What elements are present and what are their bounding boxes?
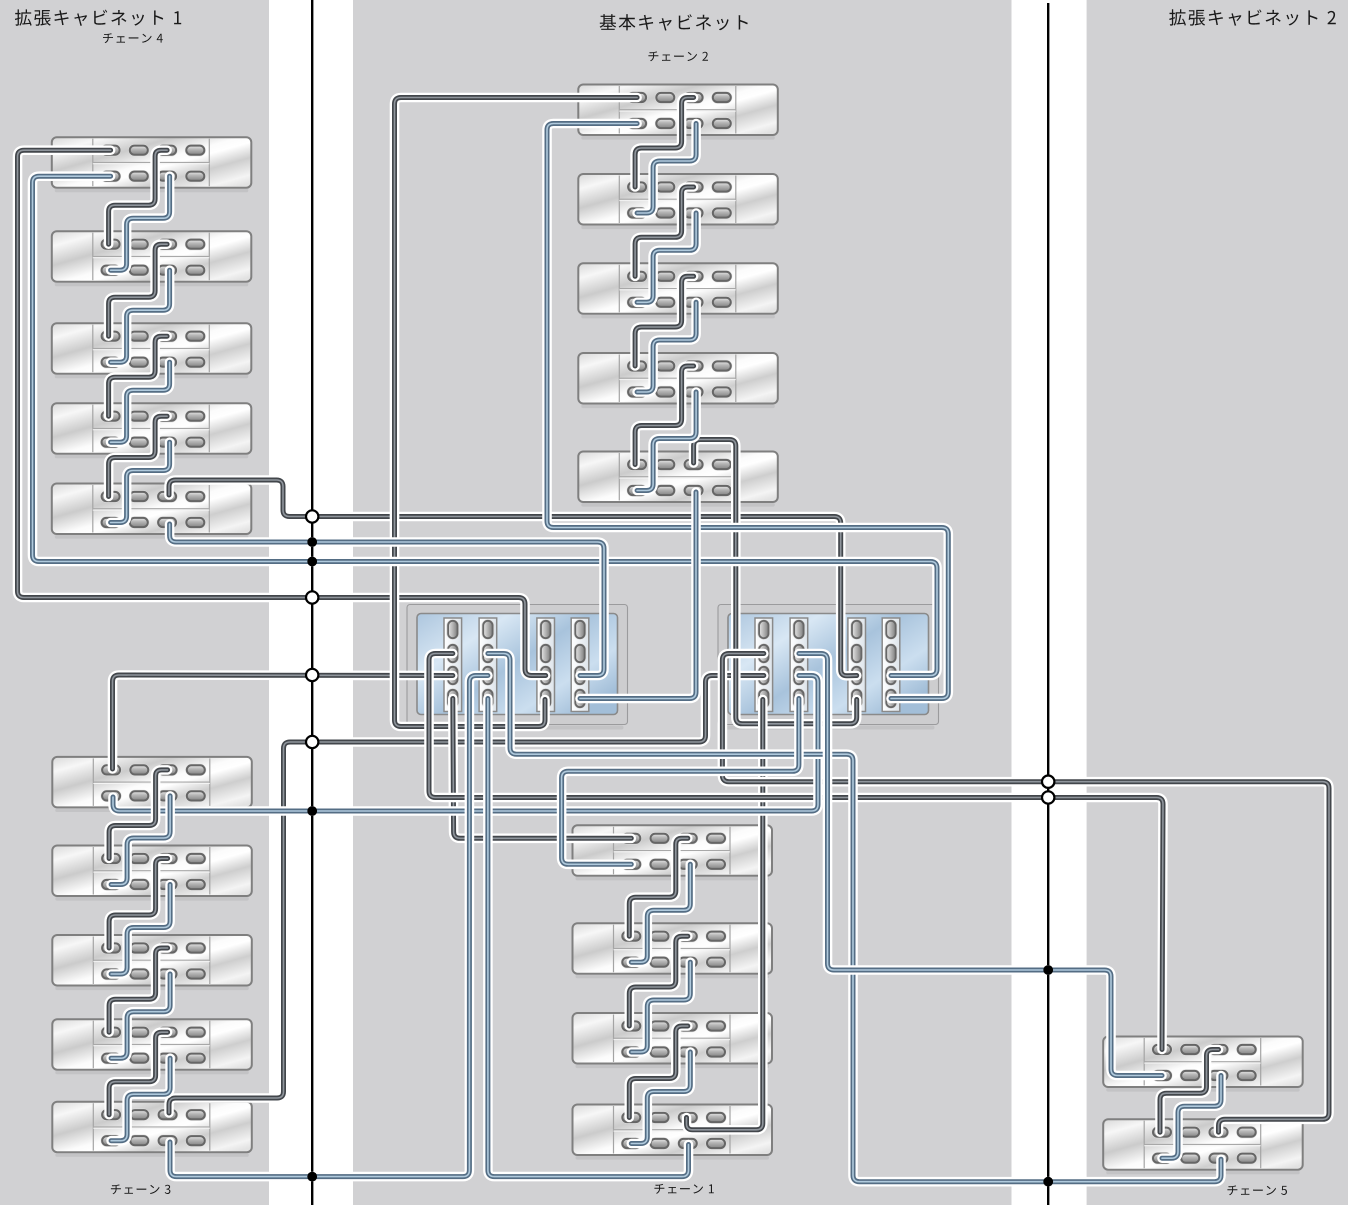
cable dark: L10 r1p3 to C2 s1p3 <box>169 676 764 1114</box>
cable dark: L6 r1p1 to C1 s1p3 <box>113 675 453 769</box>
disk shelf L4 (chain 4) <box>52 403 252 458</box>
cable blue: M7 r2p3 to M8 r2p1 <box>631 962 690 1052</box>
label: expansion cabinet 1 <box>15 9 181 26</box>
cable dark: L5 r1p3 to C2 s3p3 <box>169 480 857 676</box>
junction: filled dot at boundary y=542 <box>307 537 317 547</box>
disk shelf L3 (chain 4) <box>52 323 252 378</box>
cable dark: R1 r1p3 to R2 r1p1 <box>1160 1050 1219 1133</box>
junction: open circle at boundary y=675 <box>306 669 318 681</box>
disk shelf M8 (chain 1) <box>573 1013 773 1068</box>
cable blue: L1 r2p3 to L2 r2p1 <box>111 176 170 270</box>
cable dark: L7 r1p3 to L8 r1p1 <box>109 859 168 949</box>
disk shelf M3 (chain 2) <box>578 263 778 318</box>
cable dark: M2 r1p3 to M3 r1p1 <box>635 187 694 276</box>
cable blue: L7 r2p3 to L8 r2p1 <box>111 885 170 975</box>
label: base cabinet <box>600 14 748 31</box>
disk shelf M6 (chain 1) <box>573 825 773 880</box>
controller U1 (left head) <box>407 605 628 730</box>
cable dark: M8 r1p3 to M9 r1p1 <box>629 1026 688 1118</box>
cable blue: M8 r2p3 to M9 r2p1 <box>631 1052 690 1144</box>
label: expansion cabinet 2 <box>1169 9 1336 26</box>
cable dark: C2 s1p2 to R2 r1p3 <box>722 654 1329 1133</box>
cable blue: C1 s2p4 to M9 r2p3 <box>488 699 689 1177</box>
cable blue: L4 r2p3 to L5 r2p1 <box>111 442 170 522</box>
disk shelf M4 (chain 2) <box>578 353 778 408</box>
label: chain 3 <box>111 1184 170 1194</box>
disk shelf L5 (chain 4) <box>52 484 252 539</box>
cable blue: L1 r2p1 to C2 s4p3 <box>33 176 938 675</box>
cable dark: M4 r1p3 to M5 r1p1 <box>635 366 694 465</box>
junction: open circle at boundary y=742 <box>306 736 318 748</box>
disk shelf M5 (chain 2) <box>578 452 778 507</box>
disk shelf M2 (chain 2) <box>578 174 778 229</box>
cable dark: L6 r1p3 to L7 r1p1 <box>109 770 168 859</box>
disk shelf L9 (chain 3) <box>52 1019 252 1074</box>
junction: open circle at boundary y=516 <box>306 510 318 522</box>
junction: filled dot at boundary y=562 <box>307 557 317 567</box>
cable dark: L3 r1p3 to L4 r1p1 <box>109 336 168 416</box>
disk shelf M1 (chain 2) <box>578 85 778 140</box>
cable blue: L9 r2p3 to L10 r2p1 <box>111 1058 170 1141</box>
cable dark: M1 r1p1 to C1 s3p4 <box>395 98 638 727</box>
junction: open circle at boundary y=798 <box>1042 791 1054 803</box>
junction: filled dot at boundary y=1177 <box>307 1172 317 1182</box>
cable dark: L4 r1p3 to L5 r1p1 <box>109 416 168 496</box>
disk shelf L6 (chain 3) <box>52 757 252 812</box>
label: chain 5 <box>1227 1185 1287 1195</box>
cabinet boundary line (right) <box>1047 3 1049 1205</box>
cabinet panel: base cabinet (middle) <box>353 0 1012 1205</box>
cable dark: L9 r1p3 to L10 r1p1 <box>109 1032 168 1115</box>
cable dark: L1 r1p1 to C1 s3p3 <box>18 150 546 675</box>
cable blue: M2 r2p3 to M3 r2p1 <box>637 213 696 302</box>
cable blue: M4 r2p3 to M5 r2p1 <box>637 392 696 491</box>
disk shelf L1 (chain 4) <box>52 137 252 192</box>
cable blue: C1 s2p2 to R2 r2p3 <box>488 654 1221 1182</box>
disk shelf L8 (chain 3) <box>52 935 252 990</box>
junction: filled dot at boundary y=811 <box>307 806 317 816</box>
label: chain 1 <box>654 1184 713 1194</box>
cable dark: M7 r1p3 to M8 r1p1 <box>629 936 688 1026</box>
cabinet panel: expansion cabinet 1 (left) <box>0 0 269 1205</box>
cable dark: C1 s1p2 to R1 r1p1 <box>429 654 1163 1050</box>
cable blue: C2 s2p2 to R1 r2p1 <box>799 654 1162 1076</box>
cable dark: C1 s1p4 to M6 r1p1 <box>453 699 632 839</box>
cable blue: L3 r2p3 to L4 r2p1 <box>111 362 170 442</box>
disk shelf M7 (chain 1) <box>573 923 773 978</box>
cable blue: L8 r2p3 to L9 r2p1 <box>111 974 170 1058</box>
cable blue: M5 r2p3 to C1 s4p4 <box>580 492 696 699</box>
cable dark: L1 r1p3 to L2 r1p1 <box>109 150 168 244</box>
cable dark: L2 r1p3 to L3 r1p1 <box>109 244 168 336</box>
cable blue: M3 r2p3 to M4 r2p1 <box>637 302 696 392</box>
cable dark: L8 r1p3 to L9 r1p1 <box>109 948 168 1032</box>
cable blue: M6 r2p3 to M7 r2p1 <box>631 864 690 962</box>
junction: filled dot at boundary y=1182 <box>1043 1177 1053 1187</box>
cable blue: M1 r2p1 to C2 s4p4 <box>547 124 948 699</box>
disk shelf M9 (chain 1) <box>573 1105 773 1160</box>
cable blue: L6 r2p1 to C2 s2p3 <box>113 676 818 812</box>
disk shelf L7 (chain 3) <box>52 846 252 901</box>
cabinet boundary line (left) <box>311 0 313 1205</box>
label: chain 4 <box>103 33 163 43</box>
controller U2 (right head) <box>718 605 939 730</box>
disk shelf R1 (chain 5) <box>1103 1037 1303 1092</box>
cable dark: M3 r1p3 to M4 r1p1 <box>635 276 694 366</box>
cable dark: M1 r1p3 to M2 r1p1 <box>635 98 694 188</box>
cable blue: L5 r2p3 to C1 s4p3 <box>170 524 604 676</box>
cable blue: R1 r2p3 to R2 r2p1 <box>1162 1076 1221 1159</box>
disk shelf L2 (chain 4) <box>52 231 252 286</box>
cable blue: L2 r2p3 to L3 r2p1 <box>111 270 170 362</box>
junction: open circle at boundary y=598 <box>306 591 318 603</box>
cable blue: L10 r2p3 to C1 s2p3 <box>170 676 488 1177</box>
cable dark: M5 r1p3 to C2 s3p4 <box>694 440 857 724</box>
disk shelf R2 (chain 5) <box>1103 1119 1303 1174</box>
cable blue: C2 s2p4 to M6 r2p1 <box>562 699 799 865</box>
cable dark: M6 r1p3 to M7 r1p1 <box>629 838 688 936</box>
cable blue: M1 r2p3 to M2 r2p1 <box>637 124 696 214</box>
disk shelf L10 (chain 3) <box>52 1102 252 1157</box>
label: chain 2 <box>648 51 708 61</box>
cable blue: L6 r2p3 to L7 r2p1 <box>111 796 170 885</box>
cabinet panel: expansion cabinet 2 (right) <box>1087 0 1348 1205</box>
junction: filled dot at boundary y=970 <box>1043 965 1053 975</box>
cable dark: M9 r1p3 to C2 s1p4 <box>687 700 763 1130</box>
junction: open circle at boundary y=782 <box>1042 776 1054 788</box>
